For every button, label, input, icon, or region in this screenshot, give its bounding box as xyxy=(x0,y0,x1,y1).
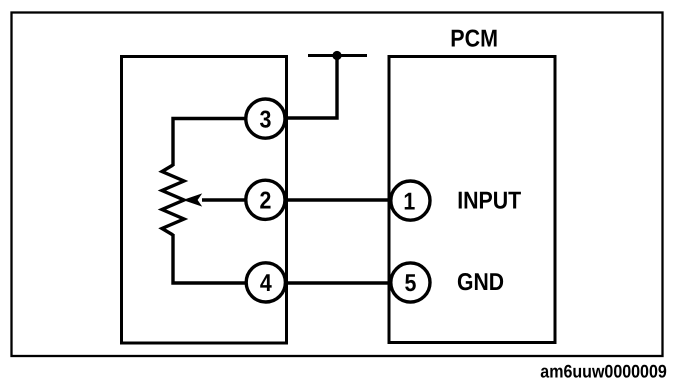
terminal 3 xyxy=(246,99,285,138)
junction dot xyxy=(332,51,341,60)
potentiometer R1 xyxy=(162,165,184,235)
pin 1 xyxy=(391,181,430,220)
terminal 2 xyxy=(246,180,285,219)
svg-text:5: 5 xyxy=(404,270,416,297)
svg-text:am6uuw0000009: am6uuw0000009 xyxy=(540,360,667,381)
wire: terminal 3 to potentiometer top xyxy=(173,119,246,167)
svg-text:1: 1 xyxy=(403,188,415,215)
wiper arrow xyxy=(183,193,246,206)
wire: terminal 4 to pin 5 xyxy=(286,281,391,284)
wire: power rail to terminal 3 xyxy=(288,56,337,119)
PCM box U1 xyxy=(389,57,555,343)
pin 5 xyxy=(391,263,430,302)
svg-text:4: 4 xyxy=(260,270,272,297)
sensor box xyxy=(122,57,287,344)
svg-text:GND: GND xyxy=(457,269,504,296)
power rail xyxy=(308,54,367,57)
svg-text:2: 2 xyxy=(259,188,271,215)
svg-text:PCM: PCM xyxy=(450,25,498,52)
svg-text:3: 3 xyxy=(259,106,271,133)
wire: terminal 2 to pin 1 xyxy=(286,198,391,201)
terminal 4 xyxy=(246,263,285,302)
wire: potentiometer bottom to terminal 4 xyxy=(173,234,246,283)
svg-text:INPUT: INPUT xyxy=(457,187,521,214)
